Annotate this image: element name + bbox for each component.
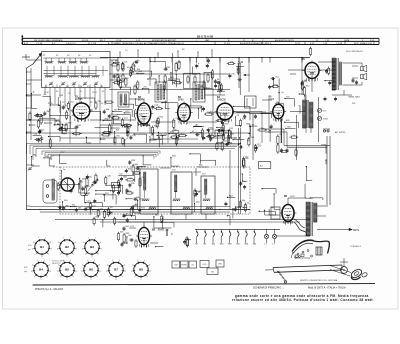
svg-text:7: 7 xyxy=(98,254,99,256)
svg-text:7: 7 xyxy=(87,260,88,262)
svg-text:1: 1 xyxy=(109,277,110,279)
svg-text:B7: B7 xyxy=(114,268,118,272)
svg-text:9: 9 xyxy=(141,279,142,281)
svg-text:7: 7 xyxy=(63,238,64,240)
svg-text:7: 7 xyxy=(73,254,74,256)
svg-text:9: 9 xyxy=(92,256,93,258)
svg-text:MOD. FINALE 9-56: MOD. FINALE 9-56 xyxy=(354,42,373,45)
svg-text:9: 9 xyxy=(67,279,68,281)
svg-text:FONO: FONO xyxy=(182,265,188,267)
svg-text:1: 1 xyxy=(60,254,61,256)
svg-text:VAR.: VAR. xyxy=(205,39,210,42)
svg-text:S2: S2 xyxy=(52,86,54,88)
svg-text:DATA: DATA xyxy=(344,39,350,42)
svg-text:1: 1 xyxy=(45,238,46,240)
svg-text:S1: S1 xyxy=(43,55,45,57)
svg-text:K1/4: K1/4 xyxy=(24,267,28,269)
svg-text:1: 1 xyxy=(35,254,36,256)
svg-text:1: 1 xyxy=(34,277,35,279)
svg-text:5: 5 xyxy=(125,271,126,273)
svg-text:SCHEMA DI PRINCIPIO →: SCHEMA DI PRINCIPIO → xyxy=(253,285,285,289)
svg-text:5: 5 xyxy=(51,248,52,250)
svg-text:RIF. FUNZIONAM. GENERALE: RIF. FUNZIONAM. GENERALE xyxy=(34,39,63,42)
svg-text:3: 3 xyxy=(99,264,100,266)
svg-text:3: 3 xyxy=(100,242,101,244)
svg-text:5: 5 xyxy=(82,264,83,266)
svg-text:7: 7 xyxy=(38,238,39,240)
svg-text:B C: B C xyxy=(52,43,56,45)
svg-text:3: 3 xyxy=(149,264,150,266)
svg-text:5: 5 xyxy=(32,264,33,266)
svg-text:OC1: OC1 xyxy=(203,264,207,266)
svg-text:a/gr: a/gr xyxy=(24,270,27,273)
svg-text:12-54: 12-54 xyxy=(116,40,122,42)
svg-text:RETE: RETE xyxy=(353,230,360,232)
svg-text:CORDA 63,5: CORDA 63,5 xyxy=(350,245,361,248)
svg-text:5: 5 xyxy=(150,271,151,273)
svg-text:S1: S1 xyxy=(45,86,47,88)
svg-text:ECH81: ECH81 xyxy=(138,100,146,102)
svg-text:5: 5 xyxy=(107,264,108,266)
svg-text:VOL: VOL xyxy=(323,111,327,113)
svg-text:7: 7 xyxy=(137,260,138,262)
svg-text:S31: S31 xyxy=(352,103,355,105)
svg-text:SOLO B5X73A /01: SOLO B5X73A /01 xyxy=(346,50,364,53)
svg-text:R9: R9 xyxy=(182,49,184,51)
svg-text:5: 5 xyxy=(101,248,102,250)
svg-text:S7: S7 xyxy=(127,78,129,80)
svg-text:S5: S5 xyxy=(102,91,104,93)
svg-text:REAZ. NEG.: REAZ. NEG. xyxy=(349,96,361,99)
svg-text:C 1-58: C 1-58 xyxy=(36,43,43,45)
svg-text:3: 3 xyxy=(106,271,107,273)
svg-text:S6: S6 xyxy=(127,67,129,69)
svg-text:S3: S3 xyxy=(56,91,58,93)
svg-text:B5: B5 xyxy=(65,268,69,272)
svg-text:3: 3 xyxy=(75,242,76,244)
svg-text:B1: B1 xyxy=(40,245,44,249)
svg-text:7: 7 xyxy=(88,238,89,240)
svg-text:5: 5 xyxy=(76,271,77,273)
svg-text:7: 7 xyxy=(112,260,113,262)
svg-text:S2: S2 xyxy=(56,55,58,57)
svg-text:EM85: EM85 xyxy=(158,230,165,232)
svg-text:1: 1 xyxy=(85,254,86,256)
svg-text:7: 7 xyxy=(73,277,74,279)
svg-text:7: 7 xyxy=(48,254,49,256)
svg-text:9: 9 xyxy=(91,279,92,281)
svg-text:1-4 6-21 V: 1-4 6-21 V xyxy=(66,43,76,45)
svg-text:3: 3 xyxy=(124,264,125,266)
svg-text:1: 1 xyxy=(60,277,61,279)
svg-text:C6: C6 xyxy=(68,93,70,95)
svg-text:Mod. B 5X73 A - ITALIA + I: Mod. B 5X73 A - ITALIA + ITALIA xyxy=(308,285,346,289)
svg-text:B3: B3 xyxy=(90,245,94,249)
svg-text:K1/a: K1/a xyxy=(28,245,32,247)
svg-text:B6: B6 xyxy=(89,268,93,272)
svg-text:7: 7 xyxy=(97,277,98,279)
svg-text:1: 1 xyxy=(144,260,145,262)
svg-text:9: 9 xyxy=(41,279,42,281)
svg-text:12-55: 12-55 xyxy=(295,43,301,45)
svg-text:C9 22: C9 22 xyxy=(92,92,97,94)
svg-text:1: 1 xyxy=(119,260,120,262)
svg-text:1: 1 xyxy=(70,238,71,240)
svg-text:3: 3 xyxy=(131,271,132,273)
svg-text:N. DIS.: N. DIS. xyxy=(82,40,89,42)
svg-text:5: 5 xyxy=(132,264,133,266)
svg-text:MODIFICAZIONI APPORT.: MODIFICAZIONI APPORT. xyxy=(152,39,177,42)
svg-text:47p: 47p xyxy=(76,103,79,105)
svg-text:TONO: TONO xyxy=(323,119,329,121)
svg-text:DA SOTTO: DA SOTTO xyxy=(52,262,61,265)
svg-text:ECC85: ECC85 xyxy=(75,99,83,101)
svg-text:S4: S4 xyxy=(78,55,80,57)
svg-text:3: 3 xyxy=(32,248,33,250)
svg-text:FM: FM xyxy=(219,264,222,266)
svg-text:21-3 B: 21-3 B xyxy=(224,43,231,45)
svg-text:3: 3 xyxy=(31,271,32,273)
svg-text:5: 5 xyxy=(100,271,101,273)
svg-text:AP. SUPPL.: AP. SUPPL. xyxy=(335,131,346,134)
svg-text:B4: B4 xyxy=(39,268,43,272)
svg-text:GRUPPO CONCENTRICO VOL. SINTON: GRUPPO CONCENTRICO VOL. SINTONIA xyxy=(300,279,338,282)
svg-text:7: 7 xyxy=(47,277,48,279)
svg-text:GO: GO xyxy=(211,271,214,273)
svg-text:ED. 1: ED. 1 xyxy=(100,40,106,42)
svg-text:AGGIUNTA PRESA FONO REV. 4: AGGIUNTA PRESA FONO REV. 4 xyxy=(240,42,272,45)
svg-text:C 2-56: C 2-56 xyxy=(336,43,343,45)
svg-text:PHILIPS S.p.A - MILANO: PHILIPS S.p.A - MILANO xyxy=(35,288,63,291)
svg-text:relazione oscore ed alle 468/3: relazione oscore ed alle 468/34. Potenza… xyxy=(232,298,374,302)
svg-text:1k: 1k xyxy=(80,91,82,93)
svg-text:B8: B8 xyxy=(139,268,143,272)
svg-text:C3: C3 xyxy=(125,50,127,52)
svg-text:5: 5 xyxy=(83,242,84,244)
svg-text:9: 9 xyxy=(116,279,117,281)
svg-text:AGGIUNTE E NOTE: AGGIUNTE E NOTE xyxy=(275,39,295,42)
svg-text:5: 5 xyxy=(58,242,59,244)
svg-text:7: 7 xyxy=(37,260,38,262)
svg-text:1: 1 xyxy=(44,260,45,262)
svg-text:52 V 218: 52 V 218 xyxy=(88,43,97,45)
svg-text:EF89: EF89 xyxy=(178,100,184,102)
svg-text:C11: C11 xyxy=(62,102,65,104)
svg-text:3: 3 xyxy=(82,248,83,250)
svg-text:3: 3 xyxy=(57,248,58,250)
svg-text:1: 1 xyxy=(70,260,71,262)
svg-text:C14: C14 xyxy=(100,103,103,105)
svg-text:9: 9 xyxy=(67,256,68,258)
svg-text:9: 9 xyxy=(42,256,43,258)
svg-text:3: 3 xyxy=(81,271,82,273)
svg-text:7: 7 xyxy=(122,277,123,279)
svg-text:CAMBIO TENSIONE E COLLEG. ALTO: CAMBIO TENSIONE E COLLEG. ALTOPARLANTE S… xyxy=(113,42,185,45)
svg-text:3: 3 xyxy=(50,242,51,244)
svg-text:S5: S5 xyxy=(89,55,91,57)
svg-text:3: 3 xyxy=(57,271,58,273)
svg-text:EABC80: EABC80 xyxy=(217,99,227,102)
svg-text:7: 7 xyxy=(147,277,148,279)
svg-text:5: 5 xyxy=(50,271,51,273)
svg-text:5: 5 xyxy=(33,242,34,244)
svg-text:S7: S7 xyxy=(87,86,89,88)
svg-text:3: 3 xyxy=(49,264,50,266)
svg-text:S4: S4 xyxy=(66,86,68,88)
svg-text:B5 X 73 A /00: B5 X 73 A /00 xyxy=(197,34,214,38)
svg-text:5: 5 xyxy=(76,248,77,250)
svg-text:S3: S3 xyxy=(67,55,69,57)
svg-text:1: 1 xyxy=(84,277,85,279)
svg-text:3: 3 xyxy=(75,264,76,266)
svg-text:OM: OM xyxy=(174,265,177,267)
svg-text:1: 1 xyxy=(94,260,95,262)
svg-text:A.T.: A.T. xyxy=(260,165,264,168)
svg-text:S9: S9 xyxy=(101,86,103,88)
svg-text:S6: S6 xyxy=(80,86,82,88)
svg-text:1: 1 xyxy=(134,277,135,279)
svg-text:B2: B2 xyxy=(65,245,69,249)
svg-text:1: 1 xyxy=(95,238,96,240)
svg-text:R3: R3 xyxy=(90,102,92,104)
